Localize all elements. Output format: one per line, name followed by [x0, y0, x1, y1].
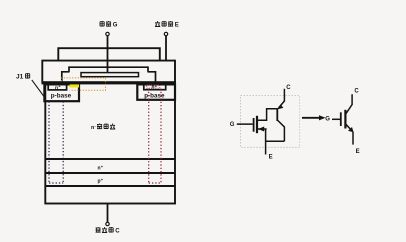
- emitter terminal circle: [164, 32, 167, 35]
- source down wire to E: [265, 129, 267, 155]
- emitter metal shoulder line: [42, 60, 175, 62]
- gate poly right step: [148, 72, 156, 82]
- collector terminal circle: [106, 222, 109, 225]
- gate electrode: [81, 73, 139, 77]
- emitter arrowhead: [348, 127, 354, 132]
- svg-text:C: C: [286, 85, 291, 91]
- svg-text:E: E: [356, 149, 360, 155]
- emitter down wire: [352, 132, 354, 145]
- equivalence arrow: [302, 117, 321, 119]
- gate poly left step: [62, 72, 70, 82]
- svg-text:G: G: [230, 122, 235, 128]
- dotted boundary box: [241, 96, 300, 148]
- collector diagonal: [345, 94, 352, 114]
- mosfet source arrowhead: [258, 127, 264, 132]
- emitter lead wire: [165, 36, 167, 61]
- right parasitic path red dotted: [149, 89, 161, 184]
- mosfet drain wire to BJT base: [257, 109, 277, 121]
- mosfet M1 channel bar: [256, 116, 258, 133]
- n- drift region label: [91, 123, 115, 131]
- emitter diagonal: [345, 124, 352, 131]
- IGBT gate bar: [340, 112, 342, 126]
- emitter metal left side: [41, 60, 43, 83]
- IGBT body bar: [344, 110, 346, 129]
- mosfet source wire with arrow: [258, 128, 267, 130]
- n+ buffer top boundary: [45, 158, 175, 160]
- p+ bottom / collector metal top: [45, 185, 175, 187]
- orange dotted channel path: [62, 78, 106, 90]
- gate wire: [237, 123, 253, 125]
- bottom rail wire: [266, 140, 285, 142]
- yellow channel highlight: [70, 84, 79, 87]
- Q1 collector diagonal: [277, 120, 284, 141]
- gate lead wire: [107, 36, 109, 73]
- silicon surface bar: [42, 81, 177, 84]
- gate terminal circle: [106, 32, 109, 35]
- node C wire: [283, 89, 285, 102]
- mosfet M1 gate bar: [253, 118, 255, 132]
- svg-text:p-base: p-base: [144, 92, 165, 99]
- left parasitic path blue dotted: [49, 102, 63, 184]
- gate poly top: [69, 67, 148, 72]
- n+/p+ boundary: [45, 172, 175, 174]
- svg-text:E: E: [269, 154, 273, 160]
- Q1 emitter arrowhead: [277, 104, 283, 109]
- left n+ source box: [48, 84, 66, 90]
- collector lead wire: [107, 204, 109, 223]
- svg-text:C: C: [354, 89, 359, 95]
- right n+ red dotted box: [147, 85, 160, 88]
- left p-base well: [44, 84, 79, 101]
- right p-base well: [137, 84, 175, 99]
- transistor Q1 base bar: [276, 108, 278, 121]
- emitter metal roof: [58, 48, 160, 60]
- svg-text:C: C: [115, 229, 120, 235]
- svg-text:E: E: [175, 23, 179, 29]
- svg-text:J1: J1: [16, 74, 24, 81]
- label 发射极E (emitter E): [155, 21, 179, 29]
- gate wire: [332, 118, 340, 120]
- Q1 emitter diagonal with arrow into base: [279, 101, 285, 108]
- emitter metal right side: [174, 60, 176, 83]
- svg-text:G: G: [325, 117, 330, 123]
- label 栅极G (gate G): [100, 21, 118, 29]
- silicon body outline: [45, 83, 175, 204]
- svg-text:G: G: [113, 23, 118, 29]
- svg-text:p-base: p-base: [51, 93, 72, 100]
- label 集电极C (collector C): [96, 227, 121, 235]
- right n+ source box: [144, 84, 166, 90]
- J1 pointer line: [32, 80, 46, 99]
